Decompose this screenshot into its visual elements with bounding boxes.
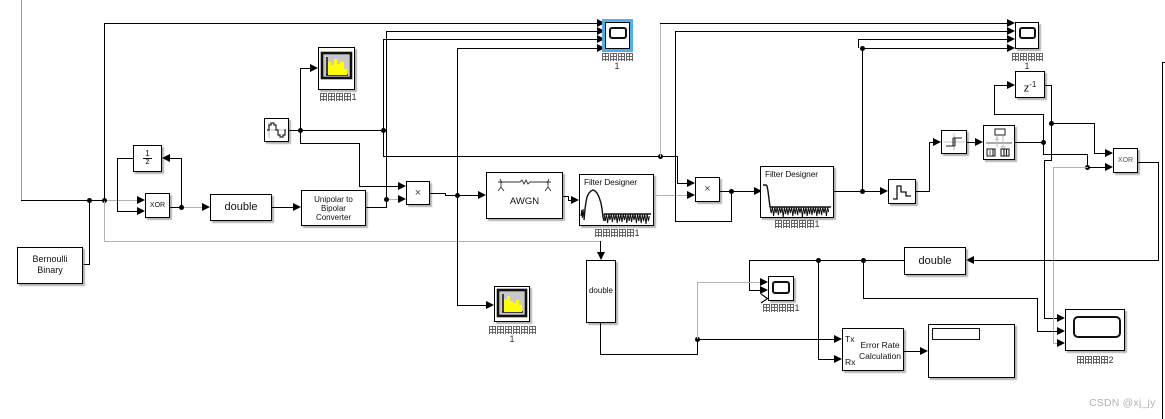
wire: ×mod output to AWGN xyxy=(430,193,445,194)
Unipolar to Bipolar Converter block xyxy=(301,190,366,226)
node: carrier junction for 解调部分 scope input 1 xyxy=(658,154,663,159)
unit delay 1/z block (flipped) xyxy=(133,145,162,172)
wire: carrier corner down to ×demod input 1 xyxy=(677,156,678,184)
Filter Designer 带通滤波器1 block xyxy=(579,174,654,226)
wire: LPF output to staircase block xyxy=(834,191,880,192)
XOR1 logical operator block xyxy=(145,193,170,218)
wire: branch down to Error Rate Rx xyxy=(818,260,819,360)
wire: modulated branch down to 已调信号频谱 xyxy=(457,196,458,305)
wire: carrier branch up x=384 to 调制部分 scope input 3 xyxy=(383,39,384,130)
label: 低通滤波器1 xyxy=(766,219,828,229)
wire: to 解调部分 scope input 4 xyxy=(862,48,1007,49)
double3 data type conversion block (flipped) xyxy=(904,247,966,275)
node: XOR1 output junction xyxy=(179,205,184,210)
wire: carrier east line y=156 toward demodulator xyxy=(383,130,384,156)
node: data junction to scope line xyxy=(384,197,389,202)
wire: left edge vertical into message line xyxy=(21,0,22,201)
wire: J1 loop up-west to Z-1 input xyxy=(1043,114,1044,142)
node: carrier junction at x=384 xyxy=(381,128,386,133)
AWGN channel block xyxy=(486,172,563,219)
node: junction on Tx wire xyxy=(695,337,700,342)
discrete sine wave generator block xyxy=(264,118,289,142)
tall double data type conversion block xyxy=(586,260,616,323)
wire: XOR1 output to double1 xyxy=(170,207,182,208)
node: junction J2 feeding XOR2 input 2 xyxy=(1085,165,1090,170)
wire: AWGN output jog to BPF xyxy=(563,196,569,197)
node: Bernoulli junction on message line xyxy=(87,198,92,203)
解调信号1 scope block xyxy=(768,276,794,301)
解调部分 scope block xyxy=(1015,22,1039,49)
wire: gray branch up to 解调信号1 input 1 xyxy=(697,282,698,339)
wire: modulated branch up to 调制部分 scope input 4 xyxy=(457,48,458,196)
double1 data type conversion block xyxy=(210,194,272,221)
node: junction feeding scope inputs 3 and 4 xyxy=(860,46,865,51)
Filter Designer 低通滤波器1 block xyxy=(760,166,834,218)
label: 已调信号频谱 / 1 xyxy=(484,325,540,335)
wire: Bernoulli Binary output up to message line xyxy=(83,264,90,265)
node: junction to 解调信号2 input 2 xyxy=(861,258,866,263)
Z^-1 unit delay block xyxy=(1015,71,1045,98)
Error Rate Calculation block xyxy=(842,328,904,371)
wire: sine output to carrier junction xyxy=(289,130,384,131)
wire: gray branch down x=104 to y=241 line xyxy=(104,201,105,241)
wire: branch up at x=104 to scope input 1 xyxy=(104,23,105,201)
已调信号频谱 spectrum analyzer block xyxy=(494,286,530,322)
wire: converter output jog up to ×mod input 2 xyxy=(366,207,386,208)
wire: message horizontal to XOR1 input 1 xyxy=(21,200,105,201)
wire: corner down to 解调信号1 input 2 xyxy=(749,260,750,290)
wire: J3 south long descent to 解调信号2 input 1 xyxy=(1051,123,1052,161)
label: 带通滤波器1 xyxy=(586,228,648,238)
node: LPF output junction xyxy=(860,189,865,194)
wire: J1 south to XOR2 input 2 xyxy=(1043,142,1044,155)
wire: branch down-east to 解调信号2 input 2 xyxy=(863,260,864,299)
wire: right edge vertical xyxy=(1162,62,1165,63)
wire: BPF output to ×demod input 2 (gray) xyxy=(654,195,687,196)
wire: J3 east to XOR2 input 1 xyxy=(1051,123,1094,124)
wire: XOR2 output down to double3 xyxy=(1138,162,1159,163)
wire: double1 to Unipolar converter xyxy=(272,207,293,208)
wire: Error Rate output to Display xyxy=(904,351,920,352)
relay block xyxy=(941,130,967,154)
wire: staircase output up to relay xyxy=(916,191,930,192)
node: carrier junction near sine xyxy=(298,128,303,133)
node: junction to Rx xyxy=(816,258,821,263)
载波频谱1 spectrum analyzer block xyxy=(318,47,355,90)
wire: J2 gray branch west-down to 解调信号2 input 3 xyxy=(1053,167,1088,168)
wire: relay output to buffer block xyxy=(967,142,975,143)
label: 解调信号2 xyxy=(1067,355,1123,365)
wire: gray horizontal y=241 to tall double xyxy=(104,241,601,242)
node: junction at x=104 on message line xyxy=(102,198,107,203)
wire: ×demod output to LPF xyxy=(720,191,754,192)
wire: XOR1 output to unit delay input (feedback up) xyxy=(181,158,182,207)
label: 解调信号1 xyxy=(753,303,809,313)
watermark: CSDN @xj_jy xyxy=(1089,397,1156,409)
node: buffer output junction J1 xyxy=(1041,140,1046,145)
XOR2 logical operator block xyxy=(1113,148,1138,173)
wire: carrier branch up x=661 to 解调部分 scope input 1 xyxy=(660,23,661,157)
×mod product block xyxy=(406,181,430,205)
wire: tall double output to Tx and 解调信号1 input 1 xyxy=(600,323,601,355)
wire: LPF branch up x=862 xyxy=(862,48,863,192)
调制部分 scope block (selected, blue halo) xyxy=(605,22,630,49)
wire: carrier branch up to 载波频谱1 xyxy=(300,68,301,130)
arrow into XOR1 input 1 xyxy=(137,196,145,204)
label: 解调部分 / 1 xyxy=(999,52,1055,62)
Bernoulli Binary source block xyxy=(17,247,83,284)
wire: data branch up x=386 to 调制部分 scope input 2 xyxy=(386,31,387,199)
×demod product block xyxy=(695,177,720,202)
wire: top horizontal y=23 to 调制部分 scope input 1 xyxy=(104,23,597,24)
wire: east to Error Rate Tx xyxy=(697,339,834,340)
wire: unit delay output down to XOR1 input 2 xyxy=(117,158,133,159)
wire: carrier branch down x=300 then to ×mod input 1 xyxy=(300,130,301,144)
buffer/frame block xyxy=(983,125,1015,160)
label: 调制部分 / 1 xyxy=(589,52,645,62)
node: modulated signal junction xyxy=(455,193,460,198)
node: demod product output junction xyxy=(729,189,734,194)
wire: demod product loop down-west-up to 解调部分 scope input 2 xyxy=(731,191,732,222)
unconnected input marker on 解调信号1 xyxy=(760,293,770,305)
wire: jog up to 解调部分 scope input 3 xyxy=(858,39,859,48)
Display block xyxy=(928,324,1015,378)
wire: Z^-1 output to junction J3 xyxy=(1045,85,1051,86)
label: 载波频谱1 xyxy=(310,92,366,102)
wire: buffer output east xyxy=(1015,142,1043,143)
解调信号2 scope block xyxy=(1065,309,1125,351)
wire: double3 output west line xyxy=(749,260,904,261)
staircase sample/hold block xyxy=(888,179,916,204)
wire: drop into tall double input xyxy=(600,241,601,253)
node: Z^-1 output junction J3 xyxy=(1049,121,1054,126)
